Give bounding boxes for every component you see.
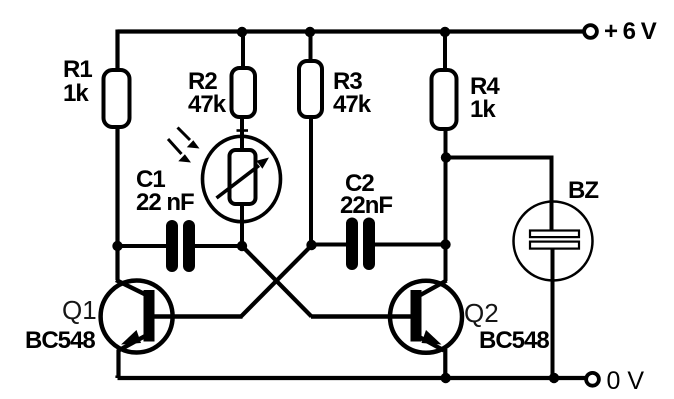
- svg-text:BZ: BZ: [568, 177, 598, 204]
- transistor Q1 emitter lead with arrow: [119, 330, 147, 351]
- junction node E (R4 / BZ branch): [441, 152, 451, 162]
- terminal +6V: [584, 25, 597, 38]
- transistor Q2 base bar: [411, 290, 422, 342]
- LDR variable arrow: [217, 158, 270, 199]
- resistor R2: [232, 68, 256, 117]
- wire R3 stem from rail: [309, 30, 313, 62]
- cross wire node B to Q2 base (diagonal): [242, 246, 312, 317]
- svg-text:47k: 47k: [188, 91, 227, 118]
- wire node C to C2 left plate: [312, 243, 347, 247]
- wire R3 bottom to node C: [309, 117, 313, 245]
- transistor Q1 base bar: [144, 290, 155, 342]
- junction node B (LDR / C1 / cross wire): [237, 241, 247, 251]
- capacitor C2: [346, 218, 375, 271]
- wire Q1 emitter to bottom rail: [116, 350, 120, 379]
- transistor Q2 collector lead: [420, 281, 447, 296]
- wire node E to node D: [444, 158, 448, 245]
- LDR resistor body: [230, 150, 256, 204]
- wire left rail bottom corner: [115, 376, 119, 379]
- svg-text:1k: 1k: [63, 80, 89, 107]
- svg-text:Q1: Q1: [62, 295, 97, 325]
- wire C1 right plate to node B: [195, 244, 242, 248]
- wire node D to Q2 collector: [444, 245, 448, 282]
- wire Q2 emitter to bottom rail: [443, 349, 447, 378]
- wire bottom ground rail: [118, 376, 586, 380]
- junction rail / R3: [305, 27, 315, 37]
- svg-text:0 V: 0 V: [607, 367, 645, 395]
- wire R1 bottom to node A: [115, 127, 119, 246]
- svg-text:R1: R1: [63, 56, 92, 83]
- wire node A to Q1 collector: [115, 246, 119, 280]
- svg-text:BC548: BC548: [479, 327, 549, 354]
- svg-text:+ 6 V: + 6 V: [604, 18, 657, 45]
- wire buzzer bottom to rail: [551, 248, 555, 378]
- wire BZ branch vertical to buzzer: [550, 156, 554, 231]
- svg-text:22 nF: 22 nF: [136, 189, 194, 216]
- svg-text:BC548: BC548: [25, 327, 95, 354]
- junction node C (R3 / C2 / cross wire): [306, 240, 316, 250]
- wire R2 bottom to LDR: [237, 117, 249, 152]
- transistor Q1 collector lead: [116, 280, 148, 296]
- terminal 0V: [586, 373, 599, 386]
- wire R4 stem from rail: [443, 30, 447, 71]
- resistor R3: [299, 61, 322, 117]
- wire left rail top (supply to R1): [115, 30, 119, 71]
- junction rail / R2: [237, 27, 247, 37]
- wire node A to C1 left plate: [118, 244, 167, 248]
- transistor Q1 circle: [101, 281, 173, 353]
- wire LDR bottom to node B: [240, 204, 244, 246]
- junction node A (R1 / C1 / Q1 collector): [112, 241, 122, 251]
- transistor Q2 circle: [390, 281, 462, 353]
- wire top supply rail: [118, 29, 584, 33]
- wire R2 stem from rail: [241, 30, 245, 69]
- junction BZ / ground rail: [549, 373, 559, 383]
- svg-text:1k: 1k: [470, 96, 496, 123]
- resistor R1: [104, 70, 130, 127]
- svg-text:22nF: 22nF: [340, 192, 392, 219]
- capacitor C1: [166, 220, 195, 272]
- wire R4 bottom to node E: [444, 129, 448, 158]
- svg-text:47k: 47k: [333, 91, 372, 118]
- LDR circle: [203, 136, 281, 221]
- wire Q2 base horizontal: [311, 314, 411, 318]
- junction Q2 emitter / ground rail: [441, 373, 451, 383]
- cross wire node C to Q1 base (diagonal): [241, 245, 312, 317]
- buzzer BZ plates: [530, 231, 579, 249]
- wire BZ branch horizontal: [446, 156, 551, 160]
- svg-text:Q2: Q2: [464, 298, 499, 328]
- resistor R4: [432, 70, 457, 129]
- light arrow 2: [168, 139, 191, 163]
- buzzer BZ circle: [514, 202, 593, 281]
- light arrow 1: [178, 128, 200, 149]
- transistor Q2 emitter lead with arrow: [417, 330, 445, 351]
- junction node D (C2 / Q2 collector): [440, 239, 450, 249]
- wire C2 right plate to node D: [375, 243, 446, 247]
- junction rail / R4: [440, 27, 450, 37]
- wire Q1 base horizontal: [154, 314, 243, 318]
